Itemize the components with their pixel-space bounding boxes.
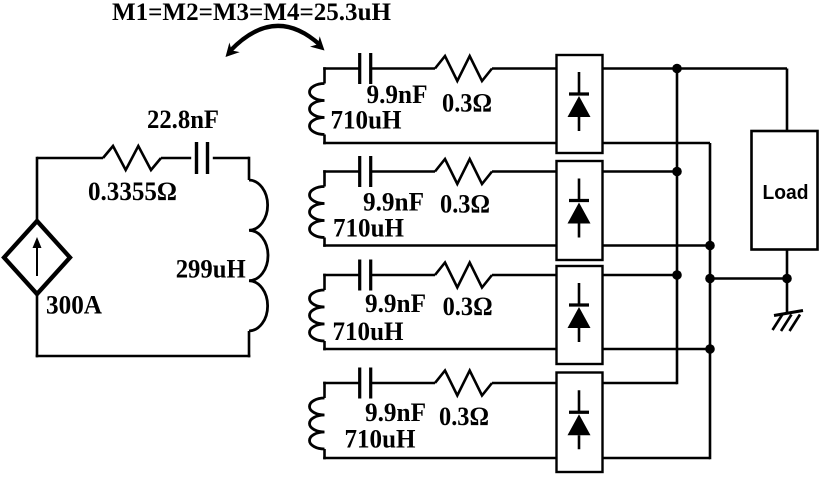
svg-text:299uH: 299uH (176, 255, 246, 284)
svg-text:9.9nF: 9.9nF (365, 289, 426, 318)
svg-text:710uH: 710uH (345, 424, 416, 453)
svg-text:710uH: 710uH (333, 214, 404, 243)
svg-text:0.3Ω: 0.3Ω (442, 89, 492, 118)
svg-text:710uH: 710uH (331, 106, 402, 135)
svg-text:710uH: 710uH (333, 317, 404, 346)
svg-text:0.3355Ω: 0.3355Ω (88, 177, 177, 206)
svg-text:0.3Ω: 0.3Ω (443, 292, 493, 321)
svg-text:9.9nF: 9.9nF (365, 398, 426, 427)
svg-text:300A: 300A (46, 291, 102, 320)
svg-text:M1=M2=M3=M4=25.3uH: M1=M2=M3=M4=25.3uH (112, 0, 391, 26)
svg-text:Load: Load (763, 182, 809, 204)
svg-text:9.9nF: 9.9nF (363, 188, 424, 217)
svg-text:0.3Ω: 0.3Ω (440, 190, 490, 219)
svg-text:22.8nF: 22.8nF (147, 105, 219, 134)
svg-text:0.3Ω: 0.3Ω (439, 402, 489, 431)
